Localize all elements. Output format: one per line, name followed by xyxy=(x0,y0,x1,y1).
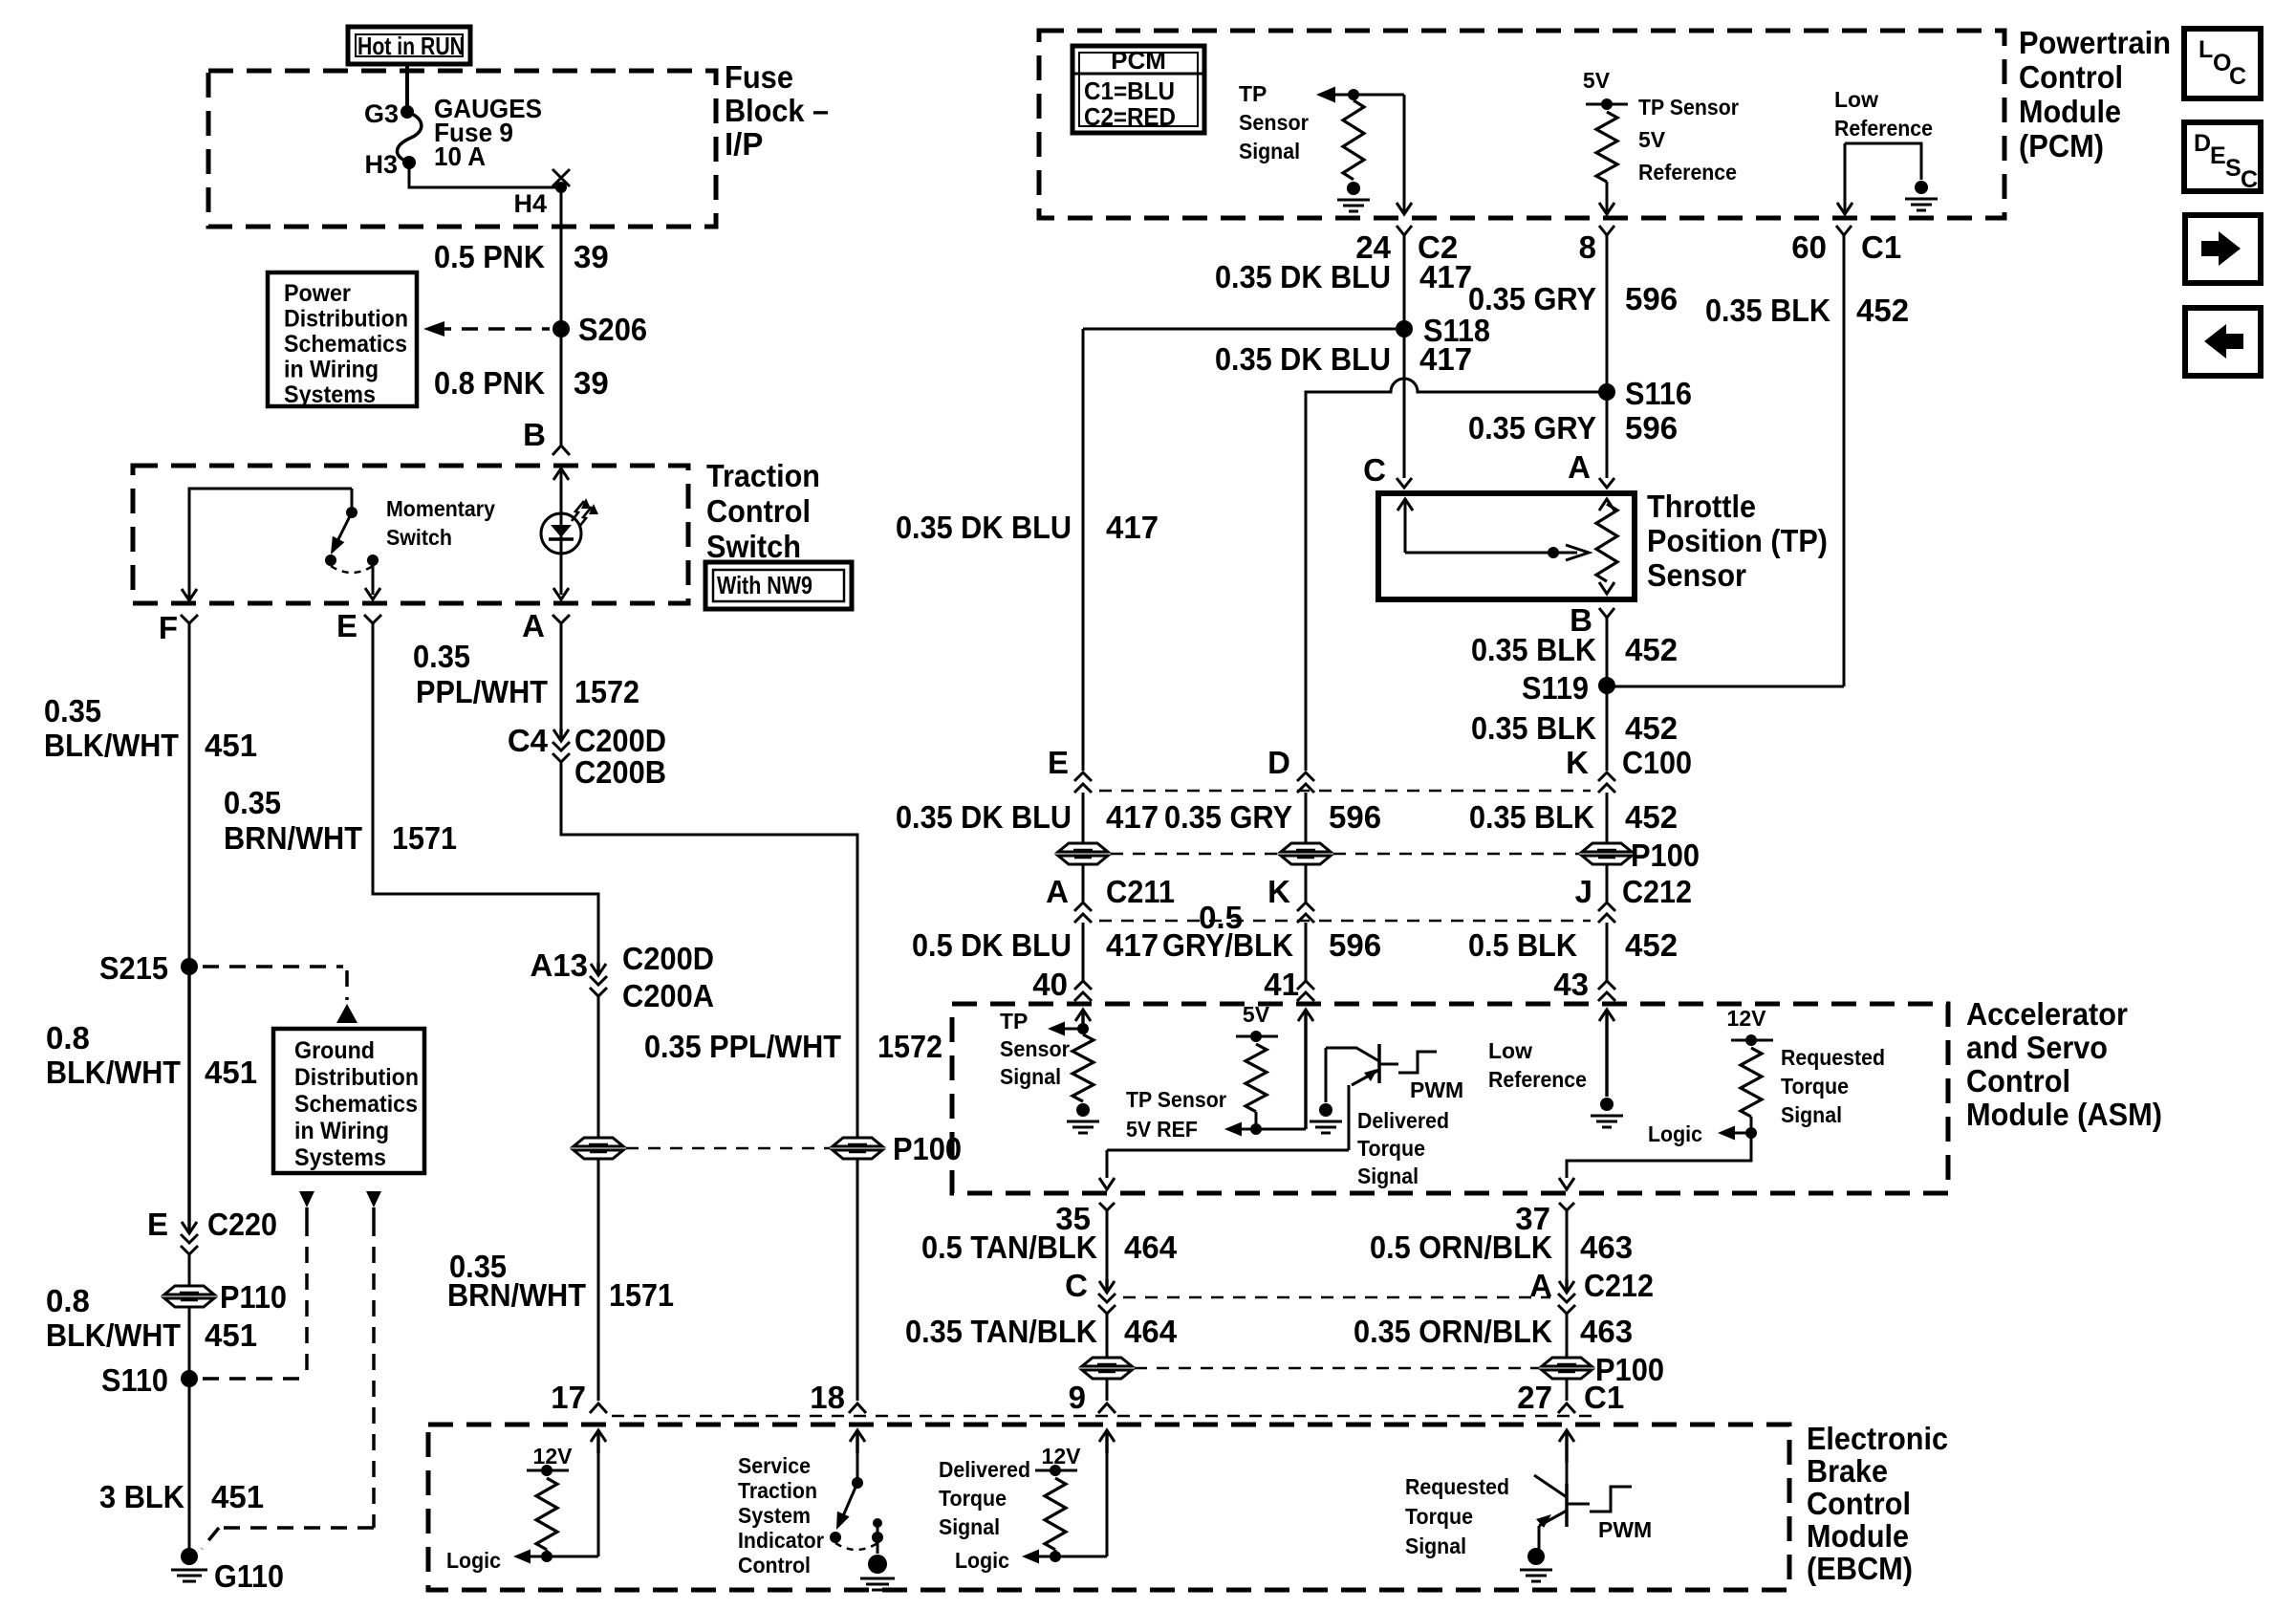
icon box DESC xyxy=(2184,122,2261,193)
svg-text:H4: H4 xyxy=(513,189,547,218)
label 12V (ASM) xyxy=(1727,1006,1767,1031)
resistor 5V (ASM) xyxy=(1245,1044,1267,1112)
label Requested Torque Signal (ASM) xyxy=(1781,1045,1885,1127)
svg-text:0.35 BLK: 0.35 BLK xyxy=(1471,632,1596,667)
svg-text:463: 463 xyxy=(1580,1229,1633,1265)
connector fork pin F xyxy=(181,615,198,623)
svg-text:5V REF: 5V REF xyxy=(1126,1117,1198,1142)
ground in PCM (TP signal) xyxy=(1337,182,1370,211)
splice S119 xyxy=(1522,670,1615,706)
svg-text:in Wiring: in Wiring xyxy=(294,1118,389,1144)
svg-text:8: 8 xyxy=(1579,229,1596,265)
svg-text:Torque: Torque xyxy=(939,1486,1007,1511)
svg-text:0.5 TAN/BLK: 0.5 TAN/BLK xyxy=(921,1229,1097,1265)
svg-text:J: J xyxy=(1575,874,1592,909)
svg-text:417: 417 xyxy=(1419,341,1472,377)
svg-text:0.8: 0.8 xyxy=(46,1283,90,1318)
wire label 0.35 PPL/WHT 1572 xyxy=(413,639,639,709)
wire label 0.35 BRN/WHT 1571 (upper) xyxy=(224,785,457,856)
svg-text:C220: C220 xyxy=(207,1207,277,1242)
svg-text:0.35 DK BLU: 0.35 DK BLU xyxy=(896,510,1072,545)
svg-text:C211: C211 xyxy=(1106,874,1175,909)
svg-text:Hot in RUN: Hot in RUN xyxy=(357,32,465,60)
PCM connector color table xyxy=(1072,46,1204,133)
wire S116 to D column with hop over C column xyxy=(1306,379,1607,771)
wire label 0.35 DK BLU 417 (below S118) xyxy=(1215,341,1472,377)
svg-text:C200D: C200D xyxy=(574,723,666,758)
svg-text:Signal: Signal xyxy=(939,1514,1000,1539)
pin label 24 C2 xyxy=(1355,229,1458,265)
svg-text:Module (ASM): Module (ASM) xyxy=(1966,1097,2162,1132)
svg-text:P100: P100 xyxy=(1631,838,1700,873)
connector chevrons pins 17/18 xyxy=(590,1403,866,1413)
svg-text:C4: C4 xyxy=(508,723,549,758)
svg-text:27: 27 xyxy=(1517,1380,1552,1415)
svg-text:C200D: C200D xyxy=(622,941,714,976)
label 5V (pin 8 source) xyxy=(1583,68,1611,93)
ground TP sensor signal (ASM) xyxy=(1067,1103,1099,1133)
svg-text:C2=RED: C2=RED xyxy=(1084,102,1176,131)
svg-text:Service: Service xyxy=(738,1453,811,1478)
resistor EBCM delivered torque xyxy=(1045,1478,1066,1550)
momentary switch contacts xyxy=(325,555,379,566)
wires C212 to P100 (bottom) xyxy=(1107,1314,1567,1358)
svg-text:0.5 BLK: 0.5 BLK xyxy=(1468,927,1577,963)
wire label 0.8 BLK/WHT 451 (upper) xyxy=(46,1020,257,1090)
wire emitter to pin 35 xyxy=(1099,1085,1349,1189)
svg-text:60: 60 xyxy=(1791,229,1827,265)
LED indicator entry arrow from pin B xyxy=(553,468,569,599)
svg-text:Brake: Brake xyxy=(1807,1453,1888,1489)
service traction switch node xyxy=(852,1477,863,1489)
svg-text:Signal: Signal xyxy=(1000,1064,1061,1089)
wires C100 to P100 xyxy=(1083,793,1607,843)
pin labels 40 41 43 xyxy=(1032,967,1589,1002)
fuse block dashed box xyxy=(208,71,716,227)
label Delivered Torque Signal (ASM) xyxy=(1357,1108,1449,1188)
pin label A xyxy=(522,608,545,643)
wire C200B down and right to 1572 column xyxy=(561,762,857,1138)
wire P100 to EBCM pin 18 xyxy=(856,1159,859,1401)
svg-text:Reference: Reference xyxy=(1488,1067,1587,1092)
dashed line S110 to ground-box arrow xyxy=(203,1377,307,1381)
svg-text:C: C xyxy=(1363,452,1386,488)
signal arrow TP Sensor Signal xyxy=(1316,87,1404,103)
wire S119 to pin 60 column xyxy=(1607,235,1844,686)
svg-text:A: A xyxy=(1046,874,1069,909)
svg-text:Requested: Requested xyxy=(1405,1474,1509,1499)
svg-text:0.35 BLK: 0.35 BLK xyxy=(1705,293,1830,328)
svg-text:9: 9 xyxy=(1069,1380,1086,1415)
low reference bracket wire xyxy=(1837,143,1921,214)
svg-text:417: 417 xyxy=(1419,259,1472,294)
pin label B at traction switch xyxy=(523,417,546,452)
svg-text:Distribution: Distribution xyxy=(294,1064,419,1091)
wire label 0.5 PNK 39 xyxy=(434,239,609,274)
EBCM pin 17 entry arrow xyxy=(591,1430,606,1556)
svg-text:L: L xyxy=(2199,36,2213,63)
svg-text:417: 417 xyxy=(1106,927,1159,963)
pin labels E D K C100 xyxy=(1048,745,1692,780)
svg-text:0.5 ORN/BLK: 0.5 ORN/BLK xyxy=(1370,1229,1552,1265)
svg-text:Traction: Traction xyxy=(706,458,820,493)
label 5V (ASM) xyxy=(1243,1002,1270,1027)
pin label 60 C1 xyxy=(1791,229,1901,265)
svg-text:GRY/BLK: GRY/BLK xyxy=(1162,927,1293,963)
pin label 9 xyxy=(1069,1380,1086,1415)
arrow to Logic (EBCM right) xyxy=(1022,1550,1107,1564)
svg-text:Torque: Torque xyxy=(1405,1504,1473,1529)
wires P100 to EBCM pins 9/27 xyxy=(1107,1379,1567,1401)
svg-text:17: 17 xyxy=(551,1380,586,1415)
svg-text:1572: 1572 xyxy=(574,674,639,709)
wires P100 to C211/C212 xyxy=(1083,864,1607,903)
svg-text:452: 452 xyxy=(1625,927,1678,963)
pin label 8 xyxy=(1579,229,1596,265)
pin label E xyxy=(336,608,357,643)
dashed link between P100 halves xyxy=(626,1147,830,1150)
node at resistor bottom (EBCM left) xyxy=(541,1550,552,1562)
svg-text:Reference: Reference xyxy=(1638,160,1737,185)
wire PCM to pin 24 xyxy=(1397,95,1412,214)
ASM pin 40 entry arrow xyxy=(1075,1010,1091,1029)
connector fork pin A xyxy=(552,615,570,623)
svg-text:(EBCM): (EBCM) xyxy=(1807,1551,1913,1586)
ASM dashed module box xyxy=(952,1004,1948,1193)
connector C220 symbol xyxy=(181,975,198,1254)
svg-text:A13: A13 xyxy=(530,947,588,983)
svg-text:C212: C212 xyxy=(1584,1268,1654,1303)
momentary switch dashed travel arc xyxy=(331,566,373,573)
inline connector P100 (pass-through pair) xyxy=(574,1131,962,1166)
svg-text:43: 43 xyxy=(1553,967,1589,1002)
wire label 0.35 DK BLU 417 (above S118) xyxy=(1215,259,1472,294)
svg-text:0.35 DK BLU: 0.35 DK BLU xyxy=(1215,259,1391,294)
ground at PWM transistor (EBCM) xyxy=(1520,1548,1552,1581)
svg-text:Momentary: Momentary xyxy=(386,496,495,521)
wire P100 to EBCM pin 17 xyxy=(597,1159,600,1401)
svg-text:0.8 PNK: 0.8 PNK xyxy=(434,365,545,401)
svg-text:464: 464 xyxy=(1124,1229,1178,1265)
label TP Sensor 5V REF xyxy=(1126,1087,1226,1142)
connector C100 chevrons xyxy=(1074,772,1615,793)
wire label 0.5 TAN/BLK 464 xyxy=(921,1229,1178,1265)
label Logic with arrow (EBCM left) xyxy=(446,1548,598,1573)
ground at PWM transistor (ASM) xyxy=(1310,1103,1342,1133)
dashed connector line C100 xyxy=(1099,790,1591,793)
svg-text:Sensor: Sensor xyxy=(1000,1036,1070,1061)
EBCM module title: Electronic Brake Control Module (EBCM) xyxy=(1807,1421,1948,1586)
dashed connector line C212 (lower) xyxy=(1123,1296,1550,1299)
svg-text:Schematics: Schematics xyxy=(284,331,407,358)
svg-text:B: B xyxy=(523,417,546,452)
svg-text:0.35: 0.35 xyxy=(44,693,101,729)
label PWM (ASM) xyxy=(1410,1077,1463,1102)
svg-text:0.35 DK BLU: 0.35 DK BLU xyxy=(896,799,1072,835)
wires C211 row to ASM pins xyxy=(1083,923,1607,983)
12V tick and node (EBCM left) xyxy=(527,1465,569,1476)
svg-text:A: A xyxy=(1568,449,1591,485)
wire label 0.35 BLK 452 (pin60 column) xyxy=(1705,293,1909,328)
pin labels A C211 / K / J C212 xyxy=(1046,874,1692,909)
wire C220 to P110 xyxy=(188,1254,191,1286)
svg-text:Control: Control xyxy=(1966,1063,2070,1099)
wire from Hot in RUN to fuse G3 xyxy=(405,62,409,112)
svg-text:596: 596 xyxy=(1329,927,1381,963)
pin labels C / A C212 xyxy=(1065,1268,1654,1303)
svg-text:5V: 5V xyxy=(1583,68,1611,93)
svg-text:PWM: PWM xyxy=(1410,1077,1463,1102)
icon box right-arrow xyxy=(2185,215,2261,283)
fuse label GAUGES Fuse 9 10 A xyxy=(434,94,542,171)
wire label 0.8 BLK/WHT 451 (lower) xyxy=(46,1283,257,1353)
fuse block title: Fuse Block - I/P xyxy=(725,59,829,162)
svg-text:A: A xyxy=(522,608,545,643)
pin label B (TP sensor) xyxy=(1570,602,1592,638)
LED indicator lamp circle xyxy=(541,513,581,554)
svg-text:BRN/WHT: BRN/WHT xyxy=(224,820,362,856)
svg-text:PPL/WHT: PPL/WHT xyxy=(416,674,548,709)
junction box label: Hot in RUN xyxy=(348,27,470,64)
svg-text:S215: S215 xyxy=(99,950,168,986)
svg-text:Position (TP): Position (TP) xyxy=(1647,523,1828,558)
dashed line S215 to ground distribution box xyxy=(203,967,357,1023)
svg-text:5V: 5V xyxy=(1243,1002,1270,1027)
service traction switch contacts xyxy=(830,1532,883,1543)
pin label C xyxy=(1363,452,1386,488)
connector C212 symbols (lower) xyxy=(1098,1279,1575,1314)
splice S118 xyxy=(1396,313,1490,348)
dashed arrow below ground box (right) xyxy=(202,1191,381,1549)
EBCM dashed module box xyxy=(428,1425,1789,1590)
label Low Reference (in PCM) xyxy=(1834,87,1933,141)
wire H3 to H4 xyxy=(409,163,561,187)
wire F to S215 xyxy=(188,623,191,967)
ground G110 xyxy=(171,1548,284,1594)
svg-text:S206: S206 xyxy=(578,312,647,347)
resistor in PCM (TP sensor signal pull-up) xyxy=(1343,100,1364,180)
PWM step symbol (EBCM) xyxy=(1567,1487,1632,1512)
svg-text:39: 39 xyxy=(574,365,609,401)
label Momentary Switch xyxy=(386,496,495,550)
splice S215 xyxy=(99,950,198,986)
node on TP sensor signal line xyxy=(1348,89,1359,100)
label TP Sensor 5V Reference (in PCM) xyxy=(1638,95,1739,185)
connector forks at TP sensor pins C/A xyxy=(1397,478,1614,488)
traction control switch title xyxy=(706,458,820,564)
svg-text:451: 451 xyxy=(205,1317,257,1353)
pin label C4 / connector C200D-C200B xyxy=(508,723,666,790)
svg-text:Systems: Systems xyxy=(294,1144,386,1171)
svg-text:12V: 12V xyxy=(1042,1444,1082,1469)
svg-text:0.35 ORN/BLK: 0.35 ORN/BLK xyxy=(1354,1314,1552,1349)
svg-text:Delivered: Delivered xyxy=(1357,1108,1449,1133)
wire label 0.35 PPL/WHT 1572 (lower) xyxy=(644,1029,942,1064)
arrow TP Sensor 5V REF xyxy=(1224,1122,1256,1137)
dashed connector line C1 row xyxy=(612,1415,1592,1418)
svg-text:0.35 GRY: 0.35 GRY xyxy=(1468,281,1596,316)
svg-text:12V: 12V xyxy=(1727,1006,1767,1031)
svg-text:596: 596 xyxy=(1625,410,1678,446)
icon box left-arrow xyxy=(2185,308,2261,376)
connector fork pin E xyxy=(364,615,381,623)
svg-text:0.8: 0.8 xyxy=(46,1020,90,1055)
svg-text:C100: C100 xyxy=(1622,745,1692,780)
svg-text:Power: Power xyxy=(284,280,351,307)
connector forks pins 24/8/60 xyxy=(1397,226,1852,235)
svg-text:H3: H3 xyxy=(364,150,398,179)
connector fork at traction switch pin B xyxy=(552,446,570,455)
svg-text:TP: TP xyxy=(1000,1009,1028,1033)
wire resistor to pin 8 xyxy=(1599,182,1614,214)
svg-text:Logic: Logic xyxy=(446,1548,501,1573)
wire H4 down to traction switch (0.5/0.8 PNK 39) xyxy=(560,187,563,446)
pin label 17 xyxy=(551,1380,586,1415)
node at resistor bottom (EBCM right) xyxy=(1050,1550,1061,1562)
label Logic with arrow (ASM) xyxy=(1648,1121,1751,1146)
svg-text:463: 463 xyxy=(1580,1314,1633,1349)
svg-text:451: 451 xyxy=(211,1479,264,1514)
svg-text:BLK/WHT: BLK/WHT xyxy=(46,1055,181,1090)
junction below resistor (ASM) xyxy=(1745,1117,1757,1139)
wire S116 down to TP sensor pin A xyxy=(1606,392,1609,478)
svg-text:and Servo: and Servo xyxy=(1966,1030,2108,1065)
PWM transistor (ASM delivered torque) xyxy=(1326,1044,1379,1085)
12V tick and node (EBCM right) xyxy=(1035,1465,1077,1476)
splice S110 xyxy=(101,1362,198,1398)
throttle position sensor box xyxy=(1378,493,1635,599)
svg-text:Indicator: Indicator xyxy=(738,1528,824,1553)
connector X symbol at H4 xyxy=(552,169,570,193)
EBCM pin 27 entry arrow xyxy=(1559,1430,1574,1484)
svg-text:PCM: PCM xyxy=(1111,46,1166,75)
svg-text:12V: 12V xyxy=(533,1444,574,1469)
svg-text:Delivered: Delivered xyxy=(939,1457,1030,1482)
5V tick and node (ASM) xyxy=(1236,1031,1278,1042)
svg-text:S119: S119 xyxy=(1522,670,1589,706)
fuse F9 GAUGES Fuse 9 10 A (S-curve fuse element) xyxy=(397,112,421,163)
option box: With NW9 xyxy=(705,562,852,609)
svg-text:S110: S110 xyxy=(101,1362,168,1398)
svg-text:F: F xyxy=(159,610,178,645)
svg-text:0.35 GRY: 0.35 GRY xyxy=(1468,410,1596,446)
pin label A (TP sensor) xyxy=(1568,449,1591,485)
svg-text:C: C xyxy=(2229,63,2246,90)
ASM pin 43 entry and ground (low reference) xyxy=(1591,1010,1623,1127)
PWM transistor (EBCM requested torque) xyxy=(1534,1475,1567,1528)
wire transistor collector to ground (ASM) xyxy=(1325,1048,1328,1102)
svg-text:Traction: Traction xyxy=(738,1478,817,1503)
svg-text:Switch: Switch xyxy=(706,529,801,564)
wire pin24 to S118 and below (0.35 DK BLU 417) xyxy=(1403,235,1406,381)
service traction dashed travel arc xyxy=(835,1543,877,1550)
connector C211/C212 chevrons xyxy=(1074,903,1615,923)
EBCM pin 9 entry arrow xyxy=(1099,1430,1115,1556)
svg-text:1571: 1571 xyxy=(392,820,457,856)
wire A down to C4 xyxy=(560,623,563,729)
svg-text:TP Sensor: TP Sensor xyxy=(1126,1087,1226,1112)
reference box: Power Distribution Schematics in Wiring Systems xyxy=(268,272,417,408)
wire label 0.35 BRN/WHT 1571 (lower) xyxy=(447,1249,674,1313)
svg-text:C200A: C200A xyxy=(622,978,714,1013)
svg-text:C1: C1 xyxy=(1861,229,1901,265)
wire S110 to G110 xyxy=(188,1379,191,1551)
svg-text:451: 451 xyxy=(205,728,257,763)
wire from switch contact down to pin E xyxy=(365,560,380,599)
svg-text:464: 464 xyxy=(1124,1314,1178,1349)
TP sensor wiper circuit xyxy=(1397,499,1589,560)
svg-text:E: E xyxy=(147,1207,168,1242)
wire label 0.35 GRY 596 (below S116) xyxy=(1468,410,1678,446)
svg-text:Torque: Torque xyxy=(1781,1074,1849,1099)
inline connector P110 xyxy=(164,1279,287,1315)
svg-text:PWM: PWM xyxy=(1598,1517,1652,1542)
wire P110 to S110 xyxy=(188,1307,191,1379)
svg-text:0.35 TAN/BLK: 0.35 TAN/BLK xyxy=(905,1314,1097,1349)
svg-text:With NW9: With NW9 xyxy=(717,571,812,599)
svg-text:40: 40 xyxy=(1032,967,1068,1002)
wire S118 to E column xyxy=(1083,328,1404,331)
pin label 18 xyxy=(810,1380,845,1415)
svg-text:Accelerator: Accelerator xyxy=(1966,996,2128,1032)
svg-text:D: D xyxy=(1267,745,1290,780)
svg-text:K: K xyxy=(1566,745,1589,780)
svg-text:Low: Low xyxy=(1488,1038,1532,1063)
splice S116 xyxy=(1598,376,1692,411)
wire label 0.35 GRY 596 (above S116) xyxy=(1468,281,1678,316)
svg-text:452: 452 xyxy=(1625,799,1678,835)
5V supply tick and node xyxy=(1586,98,1628,110)
connector fork pin 37 xyxy=(1515,1201,1574,1236)
svg-text:0.35 GRY: 0.35 GRY xyxy=(1164,799,1292,835)
wire label 0.8 PNK 39 xyxy=(434,365,609,401)
wire label 0.35 ORN/BLK 463 xyxy=(1354,1314,1633,1349)
svg-text:P110: P110 xyxy=(220,1279,287,1315)
svg-text:K: K xyxy=(1267,874,1290,909)
svg-text:39: 39 xyxy=(574,239,609,274)
svg-text:System: System xyxy=(738,1503,811,1528)
svg-text:Powertrain: Powertrain xyxy=(2019,25,2171,60)
dashed arrow from S206 to power distribution box xyxy=(423,321,550,337)
connector chevrons pins 40/41/43 xyxy=(1074,981,1615,1001)
dashed arrow below ground box (left) xyxy=(299,1191,314,1379)
svg-text:452: 452 xyxy=(1625,710,1678,746)
svg-text:TP: TP xyxy=(1239,81,1267,106)
svg-text:G110: G110 xyxy=(214,1558,284,1594)
svg-text:I/P: I/P xyxy=(725,126,763,162)
wire E column down to C100 pin E xyxy=(1082,329,1085,771)
dashed link P100 row xyxy=(1111,853,1579,856)
connector fork pin B xyxy=(1599,608,1614,618)
ground in PCM (low reference) xyxy=(1905,181,1938,210)
wire label 0.35 BLK 452 (below B) xyxy=(1471,632,1678,667)
svg-text:Control: Control xyxy=(738,1553,811,1577)
pin label A13 / connector C200D-C200A xyxy=(530,941,714,1013)
PCM dashed module box xyxy=(1039,31,2004,218)
label TP Sensor Signal (in PCM) xyxy=(1239,81,1309,163)
svg-text:0.5 PNK: 0.5 PNK xyxy=(434,239,545,274)
svg-text:452: 452 xyxy=(1856,293,1909,328)
svg-text:G3: G3 xyxy=(364,99,399,128)
connector fork pin 35 xyxy=(1055,1201,1115,1236)
pin label H4 xyxy=(513,189,547,218)
svg-text:BLK/WHT: BLK/WHT xyxy=(44,728,179,763)
wire label 0.5 ORN/BLK 463 xyxy=(1370,1229,1633,1265)
svg-text:(PCM): (PCM) xyxy=(2019,128,2104,163)
momentary switch arm with arrow xyxy=(331,512,352,555)
resistor requested torque (ASM) xyxy=(1741,1048,1762,1117)
label PWM (EBCM) xyxy=(1598,1517,1652,1542)
